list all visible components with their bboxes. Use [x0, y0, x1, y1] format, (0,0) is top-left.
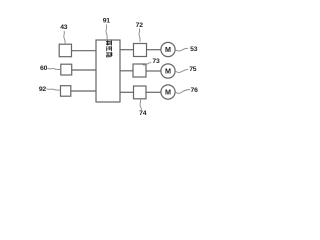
- svg-text:91: 91: [103, 18, 111, 25]
- svg-text:M: M: [165, 88, 171, 97]
- wire row3 right: [146, 91, 161, 93]
- motor M1: [161, 42, 175, 56]
- box 43: [59, 44, 71, 57]
- svg-text:60: 60: [40, 65, 48, 72]
- box 72: [134, 44, 147, 57]
- leader 60: [48, 68, 61, 69]
- kanji gyo: [106, 46, 111, 51]
- kanji bu: [106, 52, 112, 57]
- wire row2 mid: [120, 70, 133, 72]
- motor M2: [161, 64, 175, 78]
- leader 76: [176, 90, 190, 94]
- leader 74: [140, 99, 142, 110]
- svg-text:75: 75: [189, 66, 197, 73]
- box 60: [61, 64, 72, 75]
- box 92: [61, 86, 71, 97]
- wire row2 left: [72, 69, 96, 71]
- svg-text:76: 76: [191, 87, 199, 94]
- wire row1 mid: [120, 49, 134, 51]
- svg-text:M: M: [165, 45, 171, 54]
- control unit box U91: [96, 40, 120, 102]
- svg-text:74: 74: [139, 110, 147, 117]
- leader 75: [176, 69, 188, 72]
- motor M3: [161, 85, 175, 99]
- leader 73: [143, 62, 152, 65]
- leader 92: [47, 89, 61, 90]
- svg-text:M: M: [165, 67, 171, 76]
- wire row1 right: [147, 49, 162, 51]
- svg-text:43: 43: [60, 24, 68, 31]
- svg-text:92: 92: [39, 86, 47, 93]
- box 73: [133, 64, 146, 77]
- wire row1 left: [72, 50, 97, 52]
- wire row3 mid: [120, 91, 134, 93]
- kanji sei: [106, 41, 111, 46]
- leader 43: [64, 31, 65, 44]
- wire row3 left: [71, 90, 96, 92]
- svg-text:72: 72: [136, 22, 144, 29]
- leader 91: [106, 25, 107, 41]
- leader 53: [176, 48, 189, 51]
- box 74: [134, 86, 147, 99]
- svg-text:53: 53: [190, 46, 198, 53]
- leader 72: [139, 29, 140, 43]
- svg-text:73: 73: [152, 58, 160, 65]
- wire row2 right: [146, 70, 161, 72]
